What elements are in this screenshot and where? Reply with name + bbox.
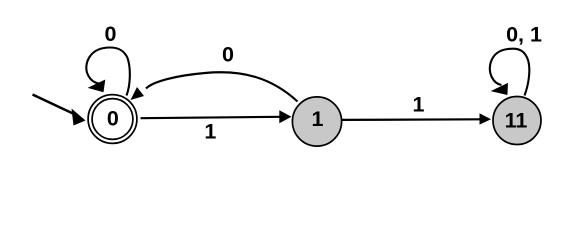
- state 11: [493, 97, 541, 145]
- svg-text:0: 0: [105, 22, 117, 46]
- state 1: [292, 97, 341, 146]
- start arrow into state 0: [33, 95, 86, 126]
- svg-text:1: 1: [413, 93, 425, 117]
- svg-text:1: 1: [204, 120, 216, 144]
- svg-text:0: 0: [107, 107, 119, 131]
- svg-text:0: 0: [222, 43, 234, 67]
- svg-text:11: 11: [505, 109, 528, 133]
- self-loop on state 11: [490, 49, 530, 96]
- svg-text:0, 1: 0, 1: [506, 23, 542, 47]
- edge 1 -> 0 (curved): [131, 72, 298, 101]
- svg-text:1: 1: [312, 107, 324, 131]
- edge 0 -> 1: [141, 110, 292, 123]
- edge 1 -> 11: [342, 113, 491, 124]
- state 0 (accepting, double circle): [88, 95, 137, 144]
- self-loop on state 0: [86, 48, 130, 96]
